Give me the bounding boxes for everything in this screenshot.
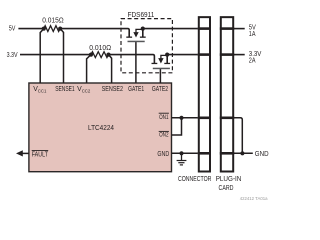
svg-text:SENSE2: SENSE2	[102, 86, 124, 93]
svg-text:LTC4224: LTC4224	[88, 123, 114, 132]
ground symbol	[177, 153, 187, 165]
svg-text:SENSE1: SENSE1	[55, 86, 75, 93]
wire VCC2 pin wire	[87, 55, 91, 83]
connector J2 body (PLUG-IN CARD)	[221, 17, 233, 171]
wire 3.3V output to connector	[167, 54, 198, 56]
wire 5V rail left segment	[18, 28, 43, 30]
svg-text:ON1: ON1	[159, 114, 169, 121]
wire 3.3V contact bar in J1	[198, 53, 211, 56]
svg-text:0.010Ω: 0.010Ω	[89, 45, 111, 52]
svg-text:1A: 1A	[249, 31, 256, 38]
wire 3.3V contact bar in J2 and stub	[220, 53, 234, 56]
svg-text:422412 TA01a: 422412 TA01a	[240, 196, 268, 201]
node card GND junction dot	[240, 151, 244, 155]
svg-text:FAULT: FAULT	[32, 152, 49, 159]
svg-text:ON2: ON2	[159, 132, 169, 139]
IC pin label ON1 (active low)	[159, 113, 169, 121]
node Q2 drain dot	[165, 53, 169, 57]
svg-text:GND: GND	[255, 151, 269, 158]
IC U1 LTC4224 body	[29, 83, 172, 172]
node R2 left dot	[89, 53, 93, 57]
wire GATE1 pin wire	[135, 42, 137, 83]
wire ON contact bar in J2 then down to card GND	[220, 117, 234, 120]
wire VCC1 pin wire	[40, 29, 44, 83]
transistor Q1 (FDS6911 top MOSFET)	[126, 29, 145, 43]
svg-text:PLUG-IN: PLUG-IN	[216, 176, 242, 183]
node ON1/ON2 junction dot	[179, 116, 183, 120]
wire ON1 to tie point	[172, 117, 198, 119]
svg-text:GATE1: GATE1	[128, 86, 144, 93]
wire 3.3V rail to Q2	[109, 55, 155, 63]
wire GATE2 pin wire	[159, 69, 161, 83]
svg-text:2A: 2A	[249, 57, 256, 64]
svg-text:GATE2: GATE2	[152, 86, 168, 93]
node R2 right dot	[106, 53, 110, 57]
wire GND from IC	[172, 152, 198, 154]
svg-text:CONNECTOR: CONNECTOR	[178, 176, 211, 183]
wire 5V output to connector	[143, 28, 198, 30]
svg-text:GND: GND	[157, 151, 169, 158]
resistor R2 0.010ohm sense	[89, 45, 111, 58]
wire 5V rail to Q1	[60, 29, 129, 37]
wire ON2 up to ON1	[172, 118, 182, 135]
wire 3.3V rail left segment	[20, 54, 91, 56]
transistor Q2 (FDS6911 bottom MOSFET)	[152, 55, 171, 70]
wire 5V contact bar in J1	[198, 27, 211, 30]
svg-text:FDS6911: FDS6911	[128, 12, 155, 19]
wire ON contact bar in J1	[198, 117, 211, 120]
IC pin label FAULT (active low)	[32, 151, 49, 159]
node R1 left dot	[42, 27, 46, 31]
IC pin label ON2 (active low)	[159, 131, 169, 138]
svg-text:3.3V: 3.3V	[7, 52, 18, 59]
connector J1 body (CONNECTOR)	[199, 17, 210, 171]
wire FAULT output with arrow	[16, 150, 29, 156]
node R1 right dot	[58, 27, 62, 31]
wire GND contact bar in J1	[198, 152, 211, 155]
svg-text:CARD: CARD	[219, 185, 234, 192]
wire GND contact bar in J2 and stub to label	[220, 152, 234, 155]
svg-text:5V: 5V	[9, 26, 16, 33]
node GND junction dot	[179, 151, 183, 155]
wire SENSE1 pin wire	[60, 29, 63, 83]
node Q1 drain dot	[141, 27, 145, 31]
dashed package outline FDS6911	[121, 12, 172, 73]
wire SENSE2 pin wire	[109, 55, 112, 83]
wire 5V contact bar in J2 and stub	[220, 27, 234, 30]
svg-text:0.015Ω: 0.015Ω	[42, 17, 64, 24]
resistor R1 0.015ohm sense	[42, 17, 64, 31]
